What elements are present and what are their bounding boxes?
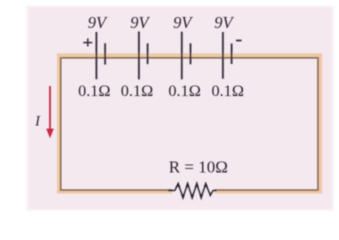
battery B4	[223, 32, 232, 79]
svg-text:9V: 9V	[173, 13, 193, 32]
battery B1	[96, 32, 105, 79]
svg-text:0.1Ω: 0.1Ω	[121, 81, 153, 100]
svg-text:9V: 9V	[88, 13, 108, 32]
wire	[59, 55, 321, 192]
svg-text:0.1Ω: 0.1Ω	[168, 81, 200, 100]
svg-text:9V: 9V	[214, 13, 234, 32]
battery B2	[139, 32, 148, 80]
svg-text:R = 10Ω: R = 10Ω	[169, 157, 228, 176]
svg-text:0.1Ω: 0.1Ω	[211, 81, 243, 100]
svg-text:9V: 9V	[130, 13, 150, 32]
negative terminal -	[236, 40, 242, 42]
resistor R	[168, 184, 216, 197]
current arrow I	[46, 86, 54, 138]
battery B3	[182, 32, 191, 80]
positive terminal +	[83, 38, 92, 46]
svg-text:0.1Ω: 0.1Ω	[78, 81, 110, 100]
